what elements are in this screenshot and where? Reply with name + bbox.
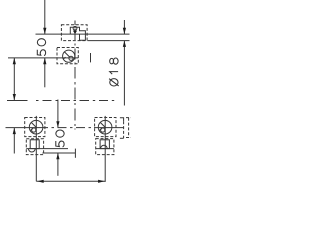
top fastener: inner step shape [70,27,85,40]
tick at end of extension line [74,149,76,158]
bottom-left fastener: inner tick [31,128,33,130]
label diameter 18 [109,58,119,86]
right edge cut-off fastener: solid corner [120,118,124,122]
bottom-right fastener: dashed box [95,118,116,137]
extension line y=153 [42,152,75,154]
dimension 50 top: upper arrowhead (down) [43,28,46,34]
top fastener: upper dashed box [61,25,87,41]
short vertical tick right of top group [90,53,92,62]
bottom-left fastener: inner diagonal [32,123,37,128]
bottom dimension line y=181.3 [36,180,105,182]
diameter 18 dimension line upper segment [123,20,125,34]
bottom-right fastener: slot line y=148.6 [96,148,114,150]
top fastener: circle inner diagonal [64,52,69,57]
right edge cut-off fastener: bottom dash [120,137,124,139]
horizontal center line y=100.5 dash-dot [7,100,114,102]
diameter 18 upper arrowhead (down) [123,28,126,34]
right edge cut-off fastener: outer bottom dash [126,137,131,139]
dimension 50 bottom: lower segment [57,153,59,176]
bottom-right fastener: dome above line [101,145,108,148]
bottom-left fastener: lower dashed box [26,139,43,155]
bottom-right fastener: lower inner rectangle [100,140,109,149]
bottom row center line y=127.6: solid left part [6,127,49,129]
bottom-left fastener: dome below line [28,149,35,152]
extension line y=34.1 [36,33,130,35]
bottom row center line: solid right part [94,127,124,129]
bottom-left fastener: dashed box [25,118,45,137]
vertical center line x=75 dash-dot [74,21,76,130]
bottom-right fastener: inner diagonal [101,123,106,128]
bottom-right fastener: circle head [98,120,112,134]
label 50 top [37,39,45,56]
extension line y=57.9 [8,57,78,59]
top fastener: circle inner tick [63,57,65,59]
dimension 50 bottom: lower arrowhead (up) [56,153,59,159]
top fastener: small head circle [73,26,77,30]
left dimension line x=14.3 upper [13,58,15,100]
bottom left arrowhead (left) [37,180,44,183]
left dimension upper arrowhead (up) [13,58,16,64]
diameter 18 lower arrowhead (up) [123,41,126,47]
bottom-right fastener: vertical center line [104,116,106,182]
dimension 50 bottom: upper arrowhead (down) [56,121,59,127]
bottom-right fastener: inner tick [100,128,102,130]
left lower dimension line x=14.3 [13,128,15,154]
label 50 bottom [56,130,64,147]
bottom-left fastener: lower inner rectangle [30,140,39,149]
dimension 50 top: lower arrowhead (up) [43,58,46,64]
top fastener: small filled wedge [73,31,77,34]
right edge cut-off fastener: outer dashed vertical [128,118,130,138]
top fastener: lower dashed box [57,48,78,64]
diameter 18 dimension line lower segment [123,41,125,106]
bottom right arrowhead (right) [98,180,105,183]
diameter 18 lower extension line y=40.6 [88,40,130,42]
dimension 50 top: lower dimension line segment [44,58,46,87]
bottom row center line: dash-dot middle [52,127,92,129]
top fastener: circle inner small circle [69,56,73,60]
bottom-left fastener: vertical center line [35,116,37,181]
bottom-left fastener: slot line y=148.6 [26,148,68,150]
top fastener: circle head [63,50,75,62]
dimension 50 bottom: upper segment [57,100,59,128]
bottom-right fastener: lower dashed box [96,139,114,155]
bottom-right fastener: inner small circle [101,128,105,132]
bottom-left fastener: circle head [29,120,43,134]
right edge cut-off fastener: dashed vertical [123,121,125,138]
bottom-left fastener: inner small circle [32,128,36,132]
right edge cut-off fastener: outer top dash [126,117,131,119]
left lower arrowhead (up) [13,128,16,134]
dimension 50 top: upper dimension line segment [44,0,46,34]
left dimension lower arrowhead (down) [13,94,16,100]
